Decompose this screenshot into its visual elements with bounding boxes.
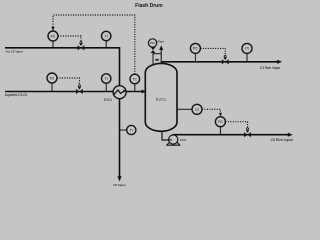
heat exchanger E201 bbox=[113, 86, 126, 99]
wire: PSV inlet from drum dome bbox=[152, 52, 154, 66]
arrow: C5 rich liquid bbox=[288, 133, 293, 137]
svg-text:LC: LC bbox=[195, 108, 200, 112]
arrow: C3 rich vapor bbox=[277, 60, 282, 64]
svg-text:C5 Vapor: C5 Vapor bbox=[113, 183, 125, 187]
svg-text:FC: FC bbox=[50, 76, 55, 80]
svg-text:C5 Rich Liquid: C5 Rich Liquid bbox=[271, 138, 293, 142]
valve V3 (vapor outlet) bbox=[222, 59, 229, 64]
svg-text:TC: TC bbox=[132, 77, 137, 81]
svg-text:Liquefied C3-C5: Liquefied C3-C5 bbox=[5, 93, 28, 97]
signal: FC3 to valve V4 bbox=[225, 122, 247, 128]
signal: FC1 to valve V1 bbox=[58, 36, 81, 41]
svg-text:TI: TI bbox=[130, 128, 133, 132]
svg-text:PC: PC bbox=[193, 47, 198, 51]
wire: PSV outlet to flare riser bbox=[153, 53, 161, 55]
instrument TI2 (liquid feed temp indicator) bbox=[105, 83, 107, 91]
wire: liquefied C3-C5 feed pipe into drum bbox=[5, 91, 143, 93]
valve V2 (liquid feed) bbox=[76, 89, 83, 94]
instrument FC1 (vapor feed flow controller) bbox=[52, 41, 54, 48]
wire: C5 rich liquid outlet pipe bbox=[173, 134, 290, 136]
wire: drum top riser to flare arrow bbox=[160, 49, 162, 63]
svg-text:Flare: Flare bbox=[158, 39, 165, 43]
instrument PC (pressure controller) bbox=[194, 53, 196, 61]
wire: hot C5 vapor feed pipe (horizontal then down through E201 to bottom arrow) bbox=[5, 48, 120, 178]
instrument TC (feed temp controller) bbox=[134, 84, 136, 92]
signal: TC to FC1 (dotted cascade) bbox=[53, 15, 135, 74]
arrow: to flare (up) bbox=[159, 45, 163, 50]
svg-text:C3 Rich Vapor: C3 Rich Vapor bbox=[260, 66, 281, 70]
signal: FC2 to valve V2 bbox=[57, 78, 79, 85]
instrument TI1 (vapor feed temp indicator) bbox=[105, 41, 107, 48]
signal: PC to valve V3 bbox=[200, 48, 225, 54]
svg-text:Flash Drum: Flash Drum bbox=[135, 3, 163, 9]
wire: drum bottom to pump bbox=[162, 131, 169, 140]
instrument TI3 (C5 vapor outlet temp) bbox=[120, 129, 127, 131]
valve V4 (liquid outlet) bbox=[244, 132, 251, 137]
signal: LC to FC3 bbox=[202, 109, 220, 113]
valve V1 (vapor feed) bbox=[78, 45, 85, 50]
svg-text:D201: D201 bbox=[156, 98, 167, 102]
svg-text:FC: FC bbox=[51, 34, 56, 38]
instrument PSV bbox=[148, 39, 156, 47]
svg-text:Hot C5 Vapor: Hot C5 Vapor bbox=[6, 49, 23, 53]
svg-text:P201: P201 bbox=[180, 138, 187, 142]
arrow: feed into drum bbox=[142, 89, 146, 93]
instrument FC2 (liquid feed flow controller) bbox=[51, 83, 53, 92]
svg-text:TI: TI bbox=[105, 34, 108, 38]
vessel D201 flash drum bbox=[145, 63, 177, 131]
arrow: C5 vapor outlet down bbox=[117, 176, 121, 181]
svg-text:FC: FC bbox=[218, 120, 223, 124]
pump P201 bbox=[166, 142, 180, 146]
svg-text:E201: E201 bbox=[104, 98, 113, 102]
svg-text:TI: TI bbox=[105, 77, 108, 81]
svg-text:PSV: PSV bbox=[150, 41, 156, 45]
wire: C3 rich vapor outlet pipe bbox=[161, 61, 278, 63]
instrument LC (level controller) bbox=[177, 108, 192, 110]
instrument PI (pressure indicator) bbox=[246, 53, 248, 61]
label: set tag (tiny) bbox=[155, 59, 158, 61]
relief valve (vertical bowtie) bbox=[151, 47, 156, 53]
instrument FC3 (liquid outlet flow controller) bbox=[219, 127, 221, 135]
svg-text:PI: PI bbox=[245, 47, 248, 51]
